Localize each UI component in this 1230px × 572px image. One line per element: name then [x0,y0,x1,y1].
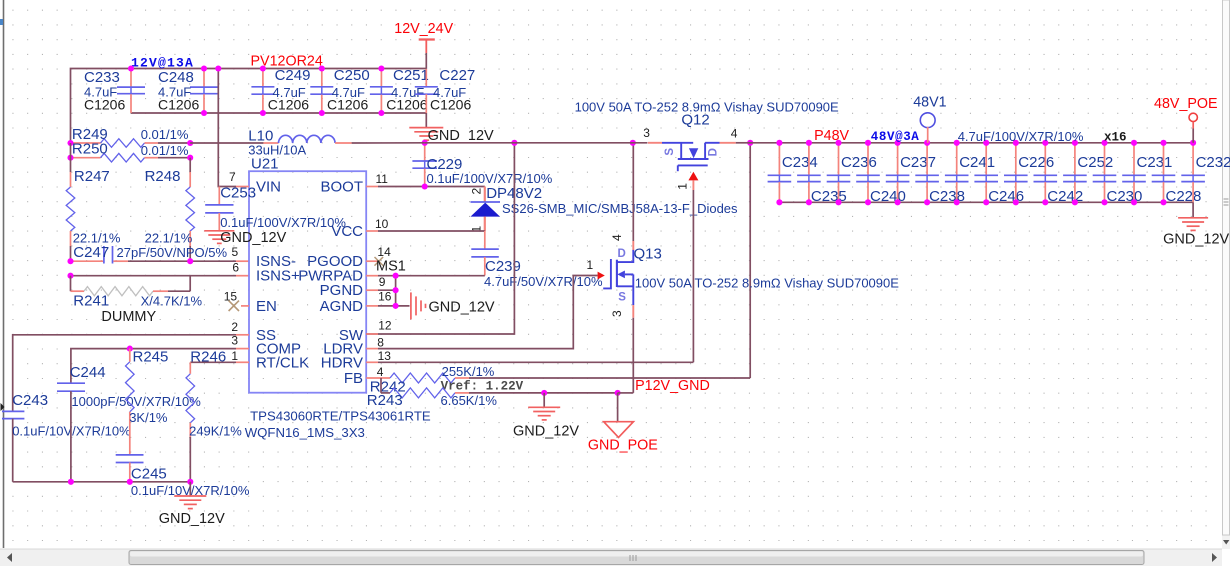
capacitor C241 [956,143,958,175]
svg-text:C244: C244 [70,364,106,381]
wire VCC net [366,230,378,232]
op-amp/controller U21 TPS43060RTE box [249,171,366,393]
capacitor C253 [218,187,220,205]
svg-text:48V@3A: 48V@3A [871,130,920,144]
svg-text:C243: C243 [12,392,48,409]
junction FB sense on rail [747,140,753,146]
svg-text:C239: C239 [485,258,521,275]
wire ISNS+ row [71,275,237,277]
wire ISNS- row with capacitor C247 [71,260,104,262]
svg-text:7: 7 [229,170,236,184]
svg-text:C247: C247 [73,244,109,261]
capacitor C243 [2,410,24,412]
wire VIN feed from 12V rail [218,69,236,187]
capacitor C231 [1133,143,1135,175]
capacitor C249 [262,69,264,86]
capacitor C239 [484,231,486,249]
svg-text:C249: C249 [275,67,311,84]
inductor L10 [190,142,263,144]
svg-text:GND_12V: GND_12V [428,128,494,144]
junctions C246 [983,140,989,146]
capacitor C246 [985,143,987,175]
svg-text:8: 8 [377,335,384,349]
svg-text:5: 5 [232,245,239,259]
capacitor C252 [1074,143,1076,175]
svg-text:14: 14 [377,245,391,259]
junctions C237 [895,140,901,146]
svg-text:D: D [618,248,626,260]
capacitor C251 [380,69,382,86]
svg-text:C237: C237 [900,154,936,171]
svg-text:3: 3 [610,310,624,317]
svg-text:C233: C233 [84,69,120,86]
svg-text:0.1uF/100V/X7R/10%: 0.1uF/100V/X7R/10% [220,215,346,230]
junctions C228 [1160,140,1166,146]
ground GND_12V (output bank) [1192,202,1194,217]
wire PWRPAD/PGND/AGND tie to ground [366,275,378,277]
wire 48V output rail [750,142,1193,144]
svg-text:GND_12V: GND_12V [513,424,579,440]
junctions C238 [924,140,930,146]
capacitor C233 [130,69,132,87]
junctions C251 [378,65,384,71]
junctions ISNS- row [67,258,73,264]
svg-text:255K/1%: 255K/1% [442,364,495,379]
svg-text:1: 1 [587,258,594,272]
svg-text:BOOT: BOOT [320,179,363,196]
junction C233 top [128,65,134,71]
junctions C230 [1101,140,1107,146]
junctions R249 [67,140,73,146]
svg-text:C1206: C1206 [158,97,199,113]
svg-text:P12V_GND: P12V_GND [635,378,710,394]
svg-text:C248: C248 [158,69,194,86]
svg-text:4: 4 [731,127,738,141]
svg-text:C253: C253 [220,185,256,202]
svg-text:4: 4 [610,234,624,241]
svg-text:C250: C250 [334,67,370,84]
capacitor C235 [808,143,810,175]
junctions C252 [1072,140,1078,146]
svg-text:11: 11 [376,172,389,186]
svg-text:R245: R245 [133,349,169,366]
svg-text:R247: R247 [74,168,110,185]
capacitor C250 [321,69,323,86]
junctions bottom-left rail [68,479,74,485]
svg-text:100V 50A TO-252 8.9mΩ Vishay S: 100V 50A TO-252 8.9mΩ Vishay SUD70090E [635,276,899,291]
bottom horizontal scrollbar [0,549,1222,566]
svg-text:C252: C252 [1077,154,1113,171]
svg-text:C236: C236 [841,154,877,171]
wire SW net [366,143,514,334]
svg-text:48V1: 48V1 [913,95,946,111]
capacitor C226 [1015,143,1017,175]
svg-text:EN: EN [256,298,277,315]
Q12 pin 1 arrow (gate) [688,172,698,181]
capacitor C244 [57,382,85,384]
svg-text:C227: C227 [439,67,475,84]
ground GND_12V (C253) [204,230,234,232]
junctions C226 [1013,140,1019,146]
svg-text:WQFN16_1MS_3X3: WQFN16_1MS_3X3 [245,425,365,440]
svg-text:S: S [664,148,676,156]
svg-text:GND_12V: GND_12V [159,511,225,527]
wire LDRV to Q13 gate [366,348,378,350]
svg-text:C231: C231 [1137,154,1173,171]
svg-text:C226: C226 [1018,154,1054,171]
capacitor C242 [1044,143,1046,175]
wire COMP net [236,348,249,350]
svg-text:33uH/10A: 33uH/10A [248,143,306,158]
svg-text:C245: C245 [131,466,167,483]
svg-text:x16: x16 [1104,131,1127,145]
wire BOOT net [366,186,378,188]
no-connect X on PGOOD pin 14 + net label MS1 [366,260,378,262]
right vertical scrollbar [1222,0,1230,549]
svg-text:HDRV: HDRV [321,354,363,371]
svg-text:P48V: P48V [814,128,849,144]
svg-text:C251: C251 [393,67,429,84]
junctions C236 [835,140,841,146]
wire 12V top rail [71,69,427,144]
junctions C241 [954,140,960,146]
capacitor C245 [116,454,144,456]
svg-text:1: 1 [675,183,689,190]
junctions PWRPAD/PGND/AGND [393,273,399,279]
svg-text:4: 4 [377,365,384,379]
junctions C240 [865,140,871,146]
svg-text:GND_POE: GND_POE [588,437,658,453]
capacitor C232 [1192,143,1194,175]
junctions C250 [319,65,325,71]
transistor Q12 PMOS [648,142,662,144]
svg-text:GND_12V: GND_12V [1163,232,1229,248]
svg-text:4.7uF/100V/X7R/10%: 4.7uF/100V/X7R/10% [958,129,1084,144]
junctions C234 [776,140,782,146]
svg-text:PGND: PGND [320,282,364,299]
capacitor C248 [203,69,205,87]
svg-text:1000pF/50V/X7R/10%: 1000pF/50V/X7R/10% [71,394,201,409]
junctions C248 [201,65,207,71]
svg-text:DUMMY: DUMMY [101,309,156,325]
svg-text:R248: R248 [145,168,181,185]
svg-text:15: 15 [224,290,238,304]
ground GND_POE [615,390,621,396]
svg-text:ISNS+: ISNS+ [256,268,300,285]
junctions C229 [422,140,428,146]
ground GND_12V (bottom-left) [189,482,191,496]
junctions R250 [67,155,73,161]
resistor R250 [71,157,101,159]
junctions C249 [260,65,266,71]
svg-text:6: 6 [232,261,239,275]
wire output bank bottom rail [779,201,1193,203]
svg-text:R241: R241 [73,293,109,310]
junctions C235 [806,140,812,146]
capacitor C236 [838,143,840,175]
junction ISNS+ left [67,273,73,279]
resistor R249 [71,142,101,144]
no-connect X on EN pin 15 [241,305,249,307]
svg-text:C228: C228 [1166,188,1202,205]
left pane edge [3,0,5,548]
svg-text:GND_12V: GND_12V [429,299,495,315]
wire FB sense up to output rail [749,143,751,378]
svg-text:C234: C234 [782,154,818,171]
wire HDRV to Q12 gate [366,361,378,363]
svg-text:S: S [618,292,626,304]
capacitor C247 [103,246,105,264]
Q13 gate pin arrow [598,272,605,280]
svg-text:1: 1 [231,349,238,363]
svg-text:C241: C241 [959,154,995,171]
resistor R246 [236,361,249,363]
svg-text:27pF/50V/NPO/5%: 27pF/50V/NPO/5% [117,245,228,260]
svg-text:100V 50A TO-252 8.9mΩ Vishay S: 100V 50A TO-252 8.9mΩ Vishay SUD70090E [575,100,839,115]
svg-text:10: 10 [375,217,389,231]
ground GND_12V (top band) [425,113,427,128]
svg-text:VIN: VIN [256,179,281,196]
junctions Q12 rail [630,140,636,146]
svg-text:MS1: MS1 [376,259,406,275]
svg-text:D: D [707,148,719,156]
wire SS net to C243 [236,334,249,336]
svg-text:13: 13 [378,349,392,363]
svg-text:2: 2 [231,320,238,334]
svg-text:Q13: Q13 [634,246,662,263]
transistor Q13 NMOS [632,143,634,241]
capacitor C240 [867,143,869,175]
svg-text:C1206: C1206 [84,97,125,113]
resistor R247 [70,143,72,172]
svg-text:C1206: C1206 [268,97,309,113]
capacitor C238 [926,143,928,175]
svg-text:C1206: C1206 [386,97,427,113]
svg-text:22.1/1%: 22.1/1% [145,231,193,246]
wire top band lower rail [131,112,426,114]
svg-text:C1206: C1206 [430,97,471,113]
svg-text:GND_12V: GND_12V [220,230,286,246]
svg-text:12V_24V: 12V_24V [394,21,453,37]
svg-text:Vref: 1.22V: Vref: 1.22V [441,380,524,394]
capacitor C229 [424,143,426,161]
svg-text:6.65K/1%: 6.65K/1% [441,393,498,408]
ground GND_12V (AGND, rotated) [410,292,412,319]
junction SW on rail [511,140,517,146]
svg-text:0.1uF/100V/X7R/10%: 0.1uF/100V/X7R/10% [427,171,553,186]
svg-text:R250: R250 [72,141,108,158]
svg-text:0.01/1%: 0.01/1% [141,143,189,158]
svg-text:SS26-SMB_MIC/SMBJ58A-13-F_Diod: SS26-SMB_MIC/SMBJ58A-13-F_Diodes [502,201,738,216]
diode DP48V2 [484,187,486,202]
capacitor C227 [425,69,427,87]
svg-text:C232: C232 [1196,154,1230,171]
resistor R248 [189,158,191,172]
capacitor C230 [1104,143,1106,175]
svg-text:FB: FB [344,370,363,387]
svg-text:RT/CLK: RT/CLK [256,354,309,371]
svg-text:16: 16 [378,290,392,304]
resistor R245 [127,346,133,352]
svg-text:2: 2 [470,188,484,195]
junction VIN feed top [215,65,221,71]
svg-text:48V_POE: 48V_POE [1154,96,1218,112]
svg-text:R243: R243 [367,392,403,409]
wire bottom-left ground rail [13,481,191,483]
svg-text:AGND: AGND [320,298,364,315]
svg-text:TPS43060RTE/TPS43061RTE: TPS43060RTE/TPS43061RTE [250,409,431,424]
svg-text:0.01/1%: 0.01/1% [141,127,189,142]
svg-text:R246: R246 [190,349,226,366]
svg-text:3K/1%: 3K/1% [129,410,168,425]
svg-text:3: 3 [643,126,650,140]
svg-text:X/4.7K/1%: X/4.7K/1% [141,294,203,309]
svg-text:9: 9 [379,275,386,289]
wire SW rail (L10 to Q12) [352,142,425,144]
ground GND_12V (P12V rail) [541,390,547,396]
junctions C232 [1190,140,1196,146]
wire FB net with resistor R242 [366,377,390,379]
svg-text:C1206: C1206 [327,97,368,113]
junctions C242 [1042,140,1048,146]
wire P12V_GND rail [469,392,618,394]
junctions C231 [1131,140,1137,146]
wire Q13 source to P12V_GND [632,318,634,393]
svg-text:12: 12 [378,319,392,333]
resistor R241 (dummy) [70,276,72,292]
capacitor C228 [1163,143,1165,175]
svg-text:249K/1%: 249K/1% [189,423,242,438]
svg-text:U21: U21 [251,156,279,173]
capacitor C237 [897,143,899,175]
resistor R243 [380,378,382,393]
capacitor C234 [778,143,780,175]
